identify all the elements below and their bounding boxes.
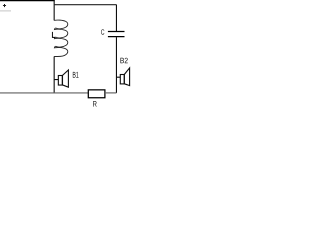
label R [93,101,97,107]
label B1 [73,72,79,78]
inductor L [54,20,68,56]
label C [101,29,104,34]
wire right vertical upper [115,5,117,31]
capacitor C bottom plate [108,36,125,38]
wire B1 stub [54,79,58,81]
speaker B2 [120,68,129,86]
label B2 [120,58,127,63]
label L [52,32,55,38]
resistor R [88,90,105,98]
wire top right rail [54,4,116,6]
plus terminal [3,4,6,7]
wire bottom rail right [105,92,117,94]
wire right vertical lower [115,37,117,93]
wire B1 vertical [53,57,55,93]
capacitor C top plate [108,31,125,33]
wire top bar [0,0,55,2]
speaker B1 [58,70,68,87]
wire bottom rail left [0,92,88,94]
wire junction vertical [53,0,55,20]
wire left terminal stub [0,10,11,12]
wire B2 stub [116,76,120,78]
